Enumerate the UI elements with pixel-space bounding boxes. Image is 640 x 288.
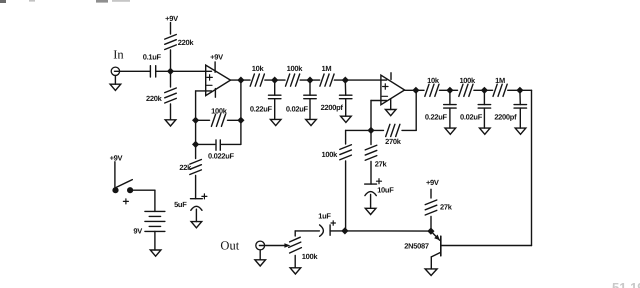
svg-text:100k: 100k bbox=[302, 252, 319, 261]
svg-text:0.1uF: 0.1uF bbox=[143, 52, 162, 61]
node F (U2 output) bbox=[412, 87, 419, 94]
resistor 100k (fb2 left) bbox=[340, 145, 352, 150]
resistor 27k (fb2) bbox=[365, 145, 377, 150]
wire 10k to node C bbox=[265, 79, 275, 81]
wire node B to 10k bbox=[241, 79, 250, 81]
wire node F down to feedback bbox=[415, 90, 417, 130]
node G (U2 minus node) bbox=[367, 127, 374, 134]
feedback top row wire bbox=[196, 119, 210, 121]
wire input bbox=[120, 70, 150, 72]
capacitor 0.02uF (ladder2) bbox=[478, 104, 490, 106]
potentiometer 100k body bbox=[290, 237, 301, 242]
capacitor 5uF electrolytic bbox=[191, 198, 203, 200]
switch SW1 contact right bbox=[127, 187, 133, 193]
capacitor 0.02uF (ladder1) bbox=[304, 94, 316, 96]
U1 V- pin stub bbox=[214, 89, 216, 98]
U2 ground pin stub bbox=[390, 99, 392, 110]
ground (output jack) bbox=[255, 260, 266, 266]
node L (1uF out) bbox=[341, 227, 348, 234]
wire 0.22uF to ground (2) bbox=[449, 108, 451, 128]
svg-text:10uF: 10uF bbox=[377, 186, 394, 195]
ground (0.22uF ladder2) bbox=[445, 128, 456, 134]
U1 plus sign bbox=[207, 76, 212, 78]
svg-text:+9V: +9V bbox=[210, 53, 223, 62]
ground (0.22uF ladder1) bbox=[270, 119, 281, 125]
svg-text:270k: 270k bbox=[385, 137, 402, 146]
svg-text:2N5087: 2N5087 bbox=[404, 242, 429, 251]
transistor Q1 2N5087 bar bbox=[440, 236, 442, 256]
node C bbox=[271, 77, 278, 84]
capacitor 0.022uF bbox=[215, 140, 217, 150]
capacitor 1uF electrolytic bbox=[320, 225, 324, 236]
10uF polarity + bbox=[377, 180, 382, 182]
svg-text:1M: 1M bbox=[321, 64, 331, 73]
resistor 220k upper wire bbox=[170, 23, 172, 34]
wire out jack to ground bbox=[259, 250, 261, 260]
capacitor 0.22uF (ladder1) bbox=[269, 94, 281, 96]
resistor 270k bbox=[386, 124, 390, 136]
resistor 1M (ladder2) bbox=[484, 89, 492, 91]
svg-text:10k: 10k bbox=[252, 64, 265, 73]
faint cropped text top-left bbox=[0, 0, 130, 3]
node E bbox=[342, 77, 349, 84]
svg-text:2200pf: 2200pf bbox=[321, 103, 344, 112]
wire 0.02uF to ground bbox=[309, 99, 311, 120]
wire node F to 10k bbox=[416, 89, 424, 91]
battery polarity + bbox=[123, 200, 128, 202]
resistor 100k (ladder2) bbox=[450, 89, 458, 91]
node (feedback left top) bbox=[192, 117, 199, 124]
svg-text:1M: 1M bbox=[495, 76, 505, 85]
svg-text:100k: 100k bbox=[459, 76, 476, 85]
node B (U1 output) bbox=[237, 77, 244, 84]
resistor 220k lower bbox=[165, 88, 177, 93]
resistor 100k feedback U1 bbox=[211, 114, 215, 126]
right rail wire down bbox=[531, 90, 533, 245]
wire node J to 2200pf bbox=[519, 90, 521, 104]
wire feedback minus loop bbox=[196, 90, 206, 92]
wire node G to minus input bbox=[370, 101, 372, 131]
Q1 emitter with arrow bbox=[431, 231, 440, 240]
node A (bias junction) bbox=[167, 68, 174, 75]
svg-text:5uF: 5uF bbox=[174, 200, 187, 209]
svg-text:10k: 10k bbox=[427, 76, 440, 85]
U1 minus sign bbox=[207, 84, 213, 86]
resistor 22k bbox=[190, 160, 202, 165]
svg-text:0.022uF: 0.022uF bbox=[208, 151, 235, 160]
svg-text:2200pf: 2200pf bbox=[494, 113, 517, 122]
capacitor 0.22uF (ladder2) bbox=[444, 104, 456, 106]
svg-text:100k: 100k bbox=[322, 150, 339, 159]
svg-text:Out: Out bbox=[220, 238, 239, 252]
battery B1 9V bbox=[145, 210, 165, 212]
svg-text:In: In bbox=[113, 48, 124, 62]
resistor 10k (ladder2) bbox=[425, 84, 429, 96]
wire node E to op-amp U2 + bbox=[345, 79, 386, 81]
svg-text:220k: 220k bbox=[178, 38, 195, 47]
svg-text:51 19: 51 19 bbox=[612, 280, 640, 288]
wire 220k to node A bbox=[170, 50, 172, 71]
node H bbox=[446, 87, 453, 94]
svg-text:+9V: +9V bbox=[426, 178, 439, 187]
node K (emitter) bbox=[427, 228, 434, 235]
resistor 1M (ladder1) bbox=[310, 79, 320, 81]
resistor 220k lower wire bbox=[170, 71, 172, 87]
resistor 10k (ladder1) bbox=[250, 74, 254, 86]
wire node C to 0.22uF bbox=[274, 80, 276, 95]
wire node D to 0.02uF bbox=[309, 80, 311, 95]
resistor 100k (ladder1) bbox=[275, 79, 285, 81]
svg-text:+9V: +9V bbox=[165, 14, 178, 23]
feedback row wire U2 bbox=[346, 129, 384, 131]
U2 minus sign bbox=[382, 95, 388, 97]
wire 10k to node H bbox=[440, 89, 450, 91]
U2 plus sign bbox=[383, 86, 388, 88]
capacitor 10uF electrolytic bbox=[365, 183, 377, 185]
svg-text:1uF: 1uF bbox=[318, 212, 331, 221]
wire 22k to 5uF bbox=[195, 176, 197, 199]
svg-text:0.22uF: 0.22uF bbox=[425, 113, 448, 122]
wire jack to pot wiper bbox=[265, 245, 285, 247]
ground (Q1) bbox=[425, 269, 437, 276]
op-amp U2 bbox=[381, 75, 405, 105]
ground (0.02uF ladder1) bbox=[306, 119, 317, 125]
wire 2200pf to ground bbox=[345, 99, 347, 117]
U2 power pin stub bbox=[390, 73, 392, 80]
svg-text:+9V: +9V bbox=[110, 154, 123, 163]
wire jack to ground bbox=[114, 76, 116, 85]
svg-text:100k: 100k bbox=[211, 107, 228, 116]
out rail wire bbox=[345, 230, 431, 232]
U2 minus input wire bbox=[371, 100, 387, 102]
wire 0.02uF to ground (2) bbox=[483, 108, 485, 128]
wire to 22k bbox=[195, 144, 197, 158]
svg-text:9V: 9V bbox=[133, 227, 142, 236]
svg-text:22k: 22k bbox=[179, 163, 192, 172]
wire cap to node A bbox=[156, 70, 171, 72]
ground (battery) bbox=[150, 250, 161, 256]
potentiometer 100k body top wire bbox=[294, 231, 296, 236]
capacitor 2200pf (ladder2) bbox=[514, 104, 526, 106]
wire node A to op-amp U1 + bbox=[171, 70, 212, 72]
wire node E to 2200pf bbox=[344, 80, 346, 95]
U1 minus input pin bbox=[206, 90, 212, 92]
switch SW1 lever bbox=[116, 180, 132, 188]
ground (2200pf ladder2) bbox=[515, 128, 526, 134]
resistor 220k upper bbox=[165, 35, 177, 40]
ground (pot) bbox=[290, 268, 301, 274]
output jack J-out bbox=[256, 241, 265, 250]
wire fb row to 100k bbox=[345, 130, 347, 144]
ground (0.02uF ladder2) bbox=[480, 128, 491, 134]
input jack J-in bbox=[111, 67, 119, 75]
wire 2200pf to ground (2) bbox=[519, 108, 521, 128]
wire node I to 0.02uF bbox=[483, 90, 485, 104]
ground (2200pf ladder1) bbox=[341, 116, 352, 122]
wire +9V to 27k bbox=[430, 189, 432, 198]
wire pot to 1uF bbox=[295, 230, 319, 232]
base rail wire bbox=[441, 245, 532, 247]
wire 0.22uF to ground bbox=[274, 99, 276, 120]
ground (U2) bbox=[385, 110, 396, 116]
svg-text:27k: 27k bbox=[440, 203, 453, 212]
wire +9V to switch bbox=[114, 162, 116, 187]
wire node G to 27k bbox=[370, 130, 372, 144]
wire 27k to emitter node bbox=[430, 217, 432, 232]
U1 power pin stub bbox=[214, 62, 216, 72]
ground (input jack) bbox=[110, 84, 121, 90]
switch SW1 contact left bbox=[112, 187, 118, 193]
capacitor 0.1uF bbox=[149, 66, 151, 77]
node (feedback left bottom) bbox=[192, 141, 199, 148]
resistor 27k (buffer) bbox=[425, 200, 437, 205]
wire U1 output bbox=[231, 79, 241, 81]
node B2 (feedback right) bbox=[237, 117, 244, 124]
svg-text:220k: 220k bbox=[146, 94, 163, 103]
pot bottom wire bbox=[294, 256, 296, 268]
wire node B down to feedback bbox=[240, 80, 242, 144]
wire battery to ground bbox=[154, 231, 156, 250]
wire 220k lower to ground bbox=[170, 104, 172, 120]
wire node J to right rail bbox=[520, 89, 532, 91]
node I bbox=[481, 87, 488, 94]
wire U2 output bbox=[405, 89, 416, 91]
wire switch to battery bbox=[133, 189, 155, 191]
pot wiper arrow bbox=[284, 243, 290, 247]
wire 27k to 10uF bbox=[370, 162, 372, 185]
wire node H to 0.22uF bbox=[449, 90, 451, 104]
1uF polarity + bbox=[331, 222, 335, 224]
svg-text:100k: 100k bbox=[287, 64, 304, 73]
ground (input bias) bbox=[165, 120, 176, 126]
feedback cap row wire bbox=[196, 143, 215, 145]
node J bbox=[516, 87, 523, 94]
capacitor 2200pf (ladder1) bbox=[340, 94, 352, 96]
wire 100k down to out rail bbox=[345, 161, 347, 231]
ground (5uF) bbox=[191, 222, 202, 228]
node D bbox=[306, 77, 313, 84]
svg-text:0.02uF: 0.02uF bbox=[286, 104, 309, 113]
svg-text:0.02uF: 0.02uF bbox=[460, 113, 483, 122]
op-amp U1 bbox=[206, 65, 231, 96]
svg-text:0.22uF: 0.22uF bbox=[250, 104, 273, 113]
Q1 collector bbox=[431, 252, 441, 257]
5uF polarity + bbox=[202, 195, 207, 197]
svg-text:27k: 27k bbox=[375, 160, 388, 169]
ground (10uF) bbox=[365, 208, 376, 214]
